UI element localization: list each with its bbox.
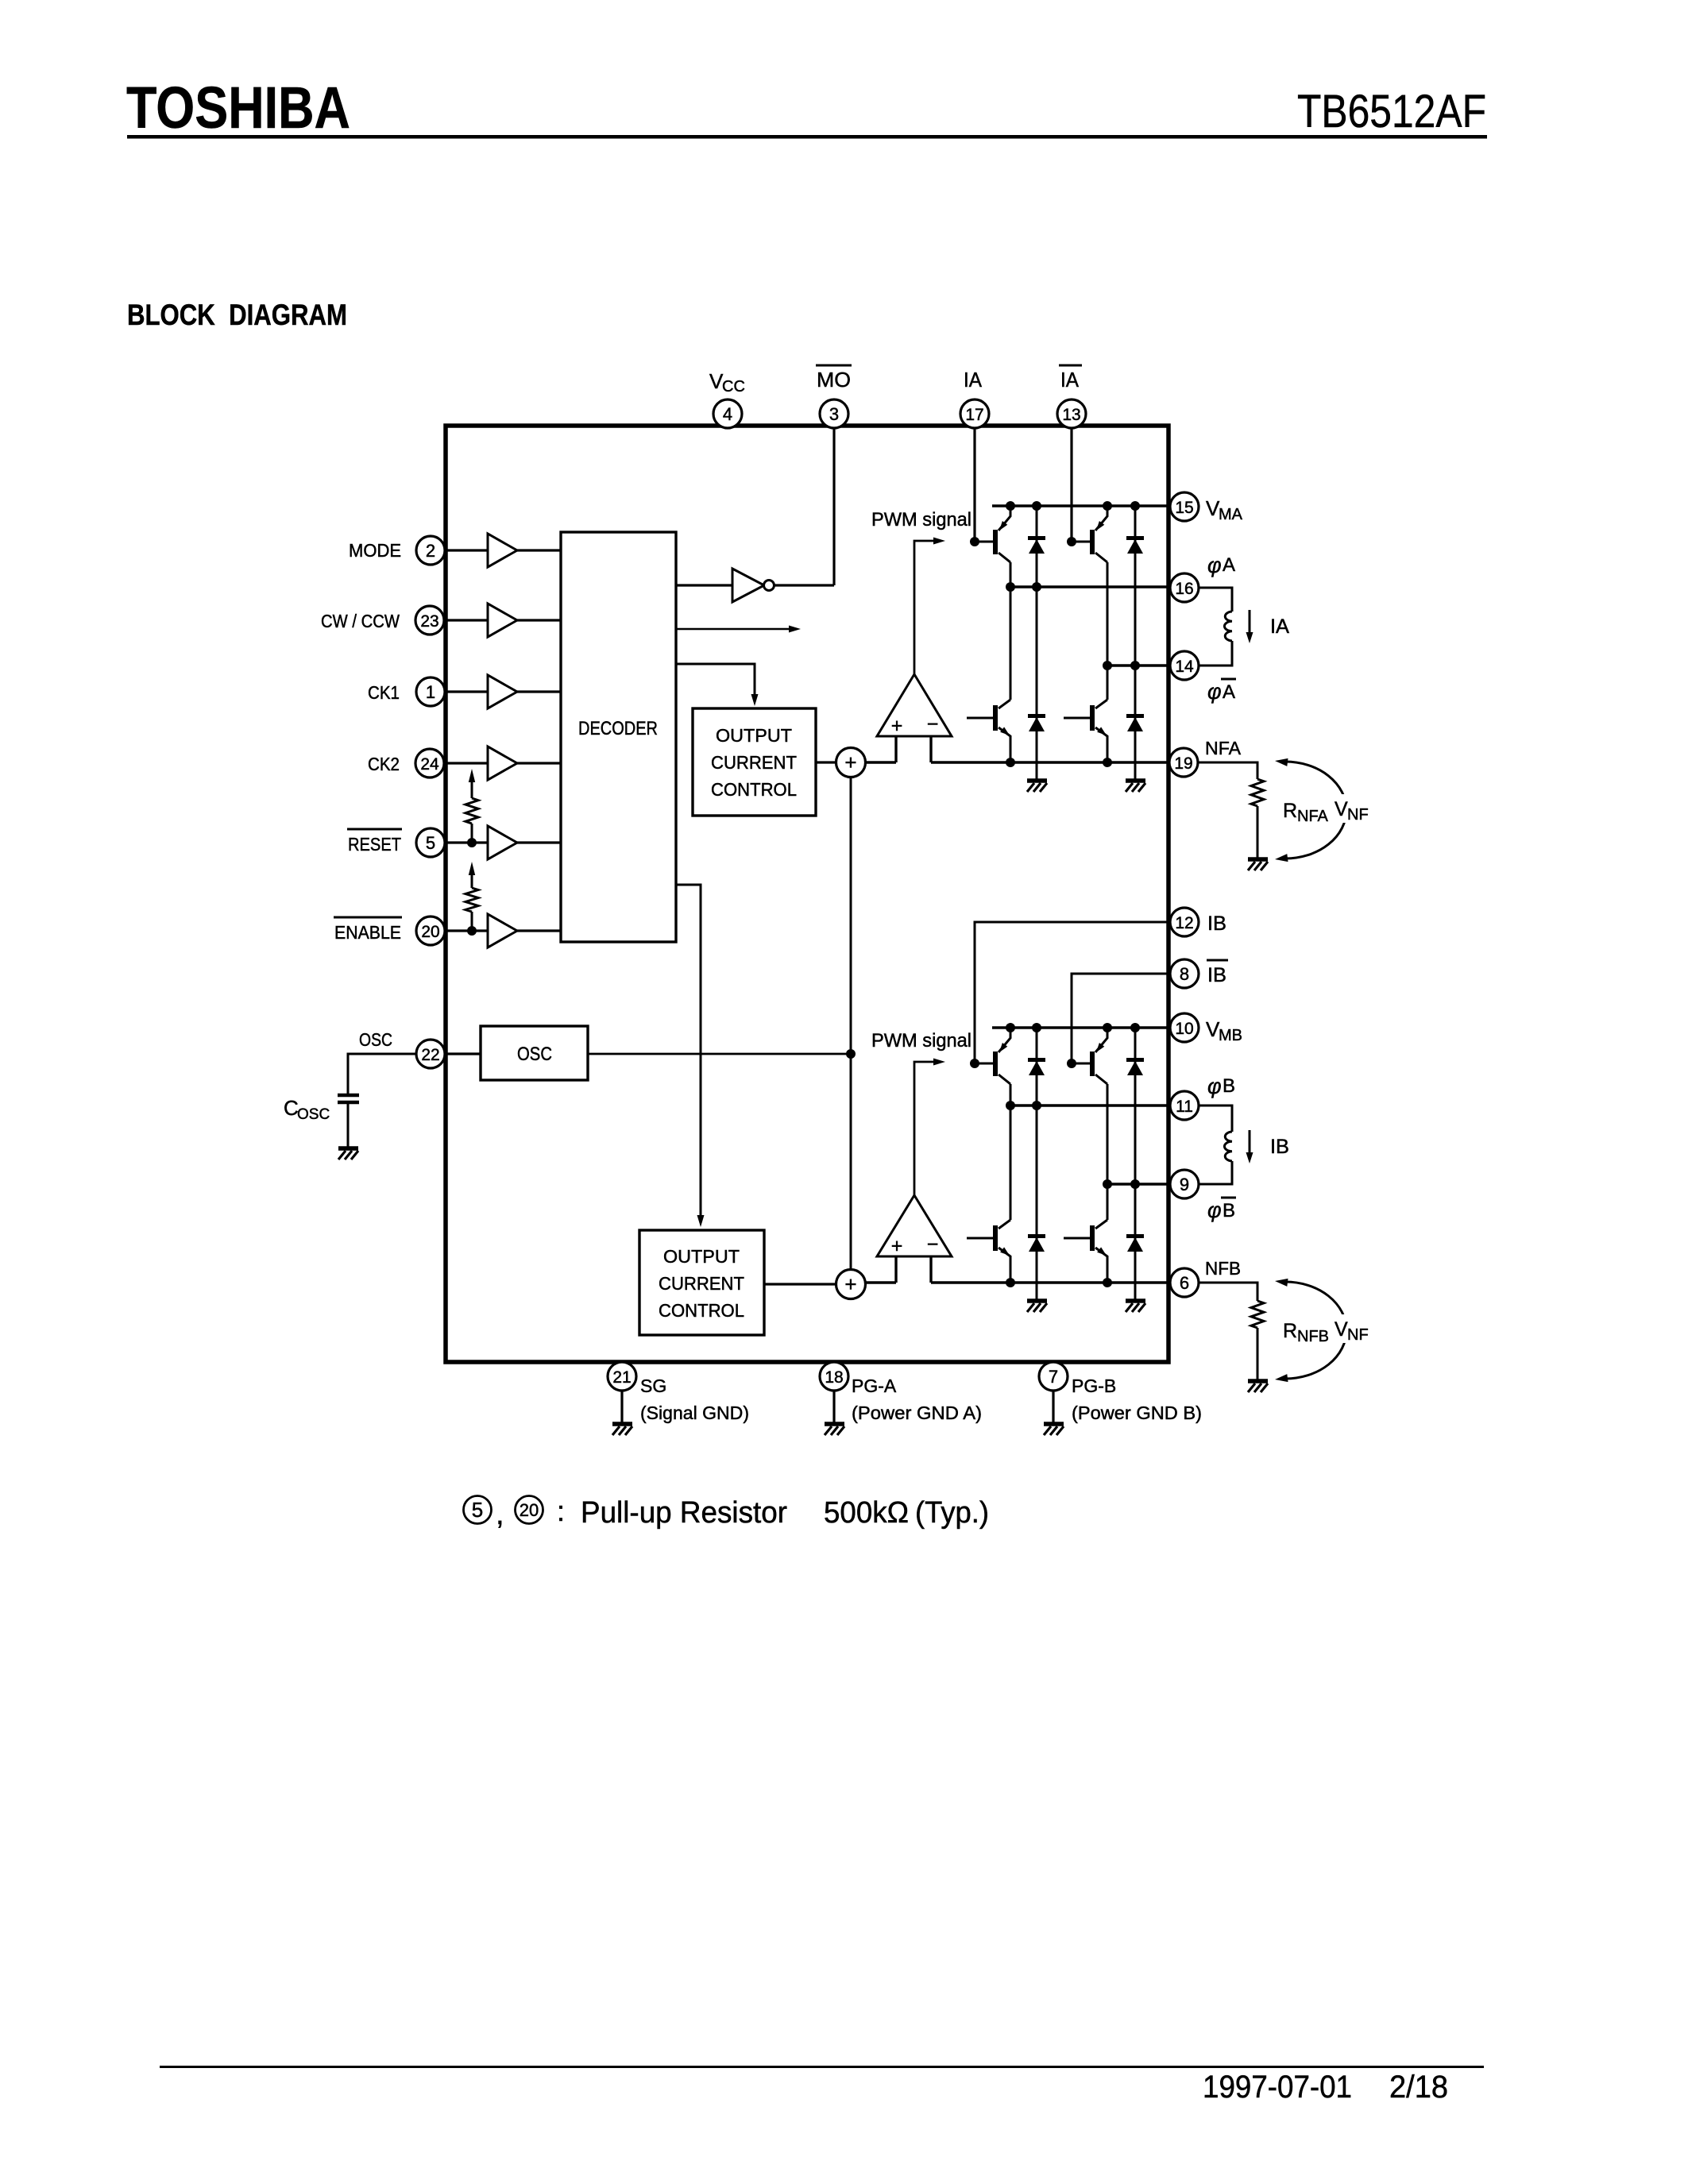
svg-text:OUTPUT: OUTPUT: [716, 725, 792, 746]
junction IB base node: [970, 1059, 979, 1068]
svg-text:Pull-up Resistor: Pull-up Resistor: [581, 1496, 787, 1530]
svg-text:TOSHIBA: TOSHIBA: [126, 75, 350, 141]
svg-text:12: 12: [1175, 914, 1193, 932]
DECODER block: [561, 532, 676, 942]
svg-text:(Power GND B): (Power GND B): [1072, 1403, 1202, 1423]
wire SG pin21 to ground: [620, 1365, 623, 1422]
OUTPUT CURRENT CONTROL block B: [639, 1230, 764, 1335]
label RNFB: [1283, 1320, 1329, 1345]
svg-text:MA: MA: [1219, 506, 1243, 523]
wire summer A to summer B (PWM feedback line): [850, 777, 852, 1269]
svg-text:IB: IB: [1207, 964, 1226, 986]
pin 13 circle (IA-bar): [1057, 399, 1086, 428]
junction VMB rail x=1429: [1130, 1023, 1140, 1032]
svg-text:2/18: 2/18: [1389, 2070, 1448, 2105]
svg-text:DECODER: DECODER: [578, 718, 658, 739]
label IA current: [1270, 615, 1289, 638]
label MO (overlined): [816, 365, 852, 392]
junction phiB-bar rail D6: [1130, 1179, 1140, 1189]
svg-text:20: 20: [520, 1500, 539, 1520]
ground bridge B right diode: [1126, 1301, 1145, 1312]
svg-text:14: 14: [1175, 658, 1194, 676]
diode D7 bridge B lower-left: [1028, 1234, 1045, 1252]
pin 21 circle (SG): [608, 1362, 636, 1391]
label phiA: [1207, 554, 1235, 577]
ground RNFB: [1248, 1381, 1268, 1392]
wire PG-A pin18 to ground: [832, 1365, 835, 1422]
VNF arc A: [1275, 758, 1374, 862]
ground bridge A right diode: [1126, 781, 1145, 792]
junction OSC line: [846, 1049, 856, 1059]
input buffer ENABLE: [488, 914, 517, 947]
wire buffer to decoder y=1172: [517, 929, 561, 932]
diode column upper-left bridge B: [1036, 1028, 1038, 1106]
junction phiB-bar rail Q6 collector: [1103, 1179, 1112, 1189]
diode column lower-left bridge A (to ground): [1036, 587, 1038, 779]
svg-text:−: −: [927, 713, 939, 735]
label NFB: [1205, 1258, 1241, 1279]
wire pin22 to external capacitor: [348, 1054, 416, 1094]
label PWM signal A: [871, 509, 971, 531]
svg-text:R: R: [1283, 1320, 1297, 1342]
ground bridge A left diode: [1027, 781, 1047, 792]
transistor Q6 bridge B upper-right (PNP upper): [1072, 1028, 1107, 1084]
wire summer B to op-amp B plus input: [865, 1281, 896, 1283]
svg-text:TB6512AF: TB6512AF: [1297, 86, 1486, 137]
wire IB-bar pin8 to bridge B base: [1072, 974, 1169, 1063]
svg-text:PWM signal: PWM signal: [871, 509, 971, 531]
label (Power GND B): [1072, 1403, 1202, 1423]
diode D4 bridge A lower-right: [1126, 714, 1144, 731]
svg-text:22: 22: [421, 1046, 439, 1064]
pin 6 circle (NFB): [1170, 1268, 1199, 1297]
svg-text:11: 11: [1176, 1098, 1193, 1116]
label VNF B: [1335, 1318, 1369, 1344]
wire pin to input buffer y=693: [433, 549, 488, 551]
current arrow IB: [1246, 1130, 1253, 1163]
svg-text:CC: CC: [722, 378, 745, 396]
svg-text:9: 9: [1180, 1175, 1189, 1194]
pin 18 circle (PG-A): [820, 1362, 848, 1391]
pin 7 circle (PG-B): [1039, 1362, 1068, 1391]
svg-text:SG: SG: [640, 1376, 666, 1396]
motor coil B circuit: [1199, 1106, 1232, 1184]
pin 11 circle (phiB): [1170, 1091, 1199, 1120]
svg-text:NFB: NFB: [1205, 1258, 1241, 1279]
wire decoder to output current control A: [676, 664, 759, 706]
label IB-bar (pin 8): [1207, 960, 1228, 986]
current arrow IA: [1246, 610, 1253, 643]
svg-text:17: 17: [965, 406, 983, 424]
diode column lower-left bridge B (to ground): [1036, 1106, 1038, 1299]
pin 2 circle (MODE): [416, 536, 445, 565]
svg-text:IA: IA: [964, 368, 983, 392]
label IB (pin 12): [1207, 913, 1226, 935]
pin 14 circle (phiA-bar): [1170, 651, 1199, 680]
OUTPUT CURRENT CONTROL block A: [693, 708, 816, 816]
decoder output arrow (phase outputs): [676, 626, 801, 633]
svg-text:RESET: RESET: [348, 834, 401, 855]
motor coil A circuit: [1199, 588, 1232, 666]
svg-text:8: 8: [1180, 964, 1189, 984]
junction VMA rail x=1394: [1103, 501, 1112, 511]
svg-text:CONTROL: CONTROL: [711, 779, 797, 800]
label (Signal GND): [640, 1403, 749, 1423]
VNF arc B: [1275, 1279, 1374, 1382]
external resistor RNFA: [1199, 762, 1264, 858]
input buffer CW/CCW: [488, 604, 517, 637]
wire PG-B pin7 to ground: [1052, 1365, 1054, 1422]
input buffer RESET: [488, 826, 517, 859]
diode D5 bridge B upper-left: [1028, 1058, 1045, 1075]
svg-text:+: +: [891, 1235, 903, 1257]
svg-text:CURRENT: CURRENT: [659, 1273, 744, 1294]
junction phiB rail Q5 collector: [1006, 1101, 1015, 1110]
svg-text:+: +: [891, 715, 903, 737]
svg-text:B: B: [1223, 1200, 1235, 1221]
svg-text:16: 16: [1175, 580, 1193, 598]
junction VMB rail x=1272: [1006, 1023, 1015, 1032]
summing node A: [836, 748, 866, 778]
phiB-bar rail (pin 9): [1107, 1183, 1169, 1185]
svg-text:5: 5: [472, 1498, 483, 1522]
label RNFA: [1283, 800, 1329, 825]
transistor column left bridge B (Q5 collector / Q7 collector): [1010, 1084, 1012, 1220]
diode column lower-right bridge B (to ground): [1134, 1184, 1137, 1299]
svg-text:(Signal GND): (Signal GND): [640, 1403, 749, 1423]
wire buffer to decoder y=871: [517, 690, 561, 693]
svg-text:,: ,: [496, 1498, 504, 1531]
label VCC: [709, 369, 745, 396]
svg-text:NF: NF: [1347, 806, 1369, 824]
wire inverter to MO pin line: [774, 584, 834, 586]
transistor Q8 bridge B lower-right (NPN lower): [1064, 1220, 1107, 1283]
transistor Q7 bridge B lower-left (NPN lower): [967, 1220, 1010, 1283]
transistor Q3 bridge A lower-left (NPN lower): [967, 700, 1010, 762]
label SG: [640, 1376, 666, 1396]
svg-text:7: 7: [1049, 1367, 1058, 1387]
svg-text:BLOCK DIAGRAM: BLOCK DIAGRAM: [127, 299, 347, 331]
pin 1 circle (CK1): [416, 677, 445, 706]
wire pin to input buffer y=1172: [433, 929, 488, 932]
junction NFB rail Q8 emitter: [1103, 1278, 1112, 1287]
svg-text:1997-07-01: 1997-07-01: [1203, 2070, 1352, 2105]
diode column upper-right bridge A: [1134, 506, 1137, 666]
svg-text:C: C: [284, 1096, 299, 1120]
junction VMB rail x=1305: [1032, 1023, 1041, 1032]
junction NFA rail Q3 emitter: [1006, 758, 1015, 767]
label IA-bar (pin 13): [1059, 365, 1082, 392]
wire OCC-A to summer A: [816, 761, 836, 763]
input buffer MODE: [488, 534, 517, 567]
svg-text:2: 2: [426, 541, 435, 561]
svg-text:V: V: [1335, 798, 1348, 820]
diode D6 bridge B upper-right: [1126, 1058, 1144, 1075]
NFB rail (pin 6): [931, 1281, 1169, 1283]
ground bridge B left diode: [1027, 1301, 1047, 1312]
label MODE: [349, 540, 401, 561]
svg-text:5: 5: [426, 833, 435, 853]
transistor Q5 bridge B upper-left (PNP upper): [975, 1028, 1010, 1084]
svg-text:CONTROL: CONTROL: [659, 1300, 744, 1321]
label (Power GND A): [852, 1403, 982, 1423]
wire IA-bar pin13 to bridge A base: [1070, 428, 1072, 542]
junction phiA-bar rail Q2 collector: [1103, 661, 1112, 670]
svg-text:IB: IB: [1207, 913, 1226, 935]
OSC block: [481, 1026, 588, 1080]
wire IB pin12 to bridge B base: [975, 922, 1169, 1063]
wire pin to input buffer y=961: [433, 762, 488, 764]
svg-text::: :: [557, 1495, 565, 1527]
label IB current: [1270, 1136, 1289, 1158]
label PG-A: [852, 1376, 897, 1396]
svg-text:IA: IA: [1270, 615, 1289, 638]
svg-text:24: 24: [420, 755, 439, 774]
svg-text:(Power GND A): (Power GND A): [852, 1403, 982, 1423]
svg-text:18: 18: [825, 1368, 843, 1387]
svg-text:CURRENT: CURRENT: [711, 752, 797, 773]
transistor column right bridge A (Q2 collector / Q4 collector): [1107, 562, 1109, 700]
note: pins 5, 20 pull-up resistor: [464, 1495, 990, 1531]
junction IA base node: [970, 537, 979, 546]
junction NFB rail Q7 emitter: [1006, 1278, 1015, 1287]
pull-up resistor on ENABLE (pin 20): [465, 862, 478, 931]
pin 3 circle (MO): [820, 399, 848, 428]
junction VMB rail x=1394: [1103, 1023, 1112, 1032]
svg-text:3: 3: [829, 404, 839, 424]
label IA (pin 17): [964, 368, 983, 392]
diode D1 bridge A upper-left: [1028, 536, 1045, 554]
transistor Q2 bridge A upper-right (PNP upper): [1072, 506, 1107, 562]
footer rule: [160, 2066, 1484, 2068]
wire OCC-B to summer B: [764, 1283, 836, 1285]
comparator op-amp A: [877, 674, 952, 762]
label phiB-bar: [1207, 1198, 1236, 1222]
label PWM signal B: [871, 1030, 971, 1051]
inductor LB motor winding B: [1224, 1132, 1232, 1161]
ground PG-A: [825, 1424, 844, 1435]
junction phiB rail D5: [1032, 1101, 1041, 1110]
svg-text:MO: MO: [817, 368, 851, 392]
footer date and page: [1203, 2070, 1448, 2105]
pin 16 circle (phiA): [1170, 573, 1199, 602]
svg-text:PG-B: PG-B: [1072, 1376, 1116, 1396]
label VNF A: [1335, 798, 1369, 824]
transistor column left bridge A (Q1 collector / Q3 collector): [1010, 562, 1012, 700]
wire buffer to decoder y=961: [517, 762, 561, 764]
svg-text:R: R: [1283, 800, 1297, 822]
pin 17 circle (IA): [960, 399, 989, 428]
label RESET (overlined): [347, 829, 402, 855]
label phiA-bar: [1207, 679, 1236, 704]
input buffer CK2: [488, 747, 517, 780]
VMA supply rail (bridge A): [992, 504, 1169, 507]
junction VMA rail x=1305: [1032, 501, 1041, 511]
diode column lower-right bridge A (to ground): [1134, 666, 1137, 779]
label COSC: [284, 1096, 330, 1123]
svg-text:4: 4: [723, 404, 732, 424]
pin 23 circle (CW/CCW): [415, 606, 444, 635]
phiA rail (pin 16): [1010, 585, 1169, 588]
comparator op-amp B: [877, 1195, 952, 1283]
svg-text:OSC: OSC: [517, 1044, 552, 1065]
junction IB-bar base node: [1067, 1059, 1076, 1068]
svg-text:23: 23: [420, 612, 438, 631]
svg-text:φ: φ: [1207, 1075, 1222, 1098]
phiB rail (pin 11): [1010, 1104, 1169, 1106]
pin 15 circle (VMA): [1170, 492, 1199, 521]
svg-text:φ: φ: [1207, 680, 1222, 704]
label OSC (pin 22 net): [359, 1029, 392, 1050]
IC block outline: [446, 426, 1168, 1362]
svg-text:(Typ.): (Typ.): [915, 1496, 989, 1530]
junction RESET pull-up: [467, 838, 477, 847]
svg-text:−: −: [927, 1233, 939, 1256]
svg-text:MB: MB: [1219, 1027, 1242, 1044]
svg-text:PG-A: PG-A: [852, 1376, 897, 1396]
wire MO pin3 to inverter output: [832, 428, 835, 585]
diode D8 bridge B lower-right: [1126, 1234, 1144, 1252]
svg-text:A: A: [1223, 681, 1235, 703]
wire buffer to decoder y=781: [517, 619, 561, 621]
pin 22 circle (OSC): [416, 1040, 445, 1068]
wire summer A to op-amp A plus input: [865, 761, 896, 763]
input buffer CK1: [488, 675, 517, 708]
pin 4 circle (VCC): [713, 399, 742, 428]
wire OSC output to PWM line: [589, 1053, 851, 1055]
pin 19 circle (NFA): [1169, 748, 1198, 777]
pin 12 circle (IB): [1170, 908, 1199, 936]
junction NFA rail Q4 emitter: [1103, 758, 1112, 767]
svg-text:A: A: [1223, 554, 1235, 576]
transistor Q4 bridge A lower-right (NPN lower): [1064, 700, 1107, 762]
diode D3 bridge A lower-left: [1028, 714, 1045, 731]
svg-text:20: 20: [421, 923, 439, 941]
transistor Q1 bridge A upper-left (PNP upper): [975, 506, 1010, 562]
diode column upper-right bridge B: [1134, 1028, 1137, 1184]
pin 8 circle (IB-bar): [1170, 959, 1199, 988]
junction VMA rail x=1272: [1006, 501, 1015, 511]
svg-text:PWM signal: PWM signal: [871, 1030, 971, 1051]
label VMA: [1206, 496, 1243, 523]
diode D2 bridge A upper-right: [1126, 536, 1144, 554]
svg-text:V: V: [1335, 1318, 1348, 1341]
svg-text:CK2: CK2: [368, 754, 400, 774]
external resistor RNFB: [1199, 1283, 1264, 1379]
svg-text:+: +: [844, 751, 856, 774]
svg-text:IB: IB: [1270, 1136, 1289, 1158]
pin 5 circle (RESET): [416, 828, 445, 857]
label PG-B: [1072, 1376, 1116, 1396]
PWM signal arrow A: [914, 538, 945, 675]
ground RNFA: [1248, 859, 1268, 870]
label ENABLE (overlined): [334, 917, 402, 943]
section title BLOCK DIAGRAM: [127, 299, 347, 331]
svg-text:OUTPUT: OUTPUT: [663, 1246, 740, 1267]
ground PG-B: [1044, 1424, 1064, 1435]
transistor column right bridge B (Q6 collector / Q8 collector): [1107, 1084, 1109, 1220]
label CK1: [368, 682, 400, 703]
svg-text:13: 13: [1062, 406, 1080, 424]
junction IA-bar base node: [1067, 537, 1076, 546]
svg-text:B: B: [1223, 1075, 1235, 1097]
svg-text:MODE: MODE: [349, 540, 401, 561]
part number TB6512AF: [1297, 86, 1486, 137]
ground SG: [612, 1424, 632, 1435]
junction phiA rail D1: [1032, 582, 1041, 592]
inverter (MO output): [732, 569, 774, 602]
TOSHIBA logo: [126, 75, 350, 141]
junction phiA-bar rail D2: [1130, 661, 1140, 670]
svg-text:21: 21: [612, 1368, 631, 1387]
svg-text:NFB: NFB: [1297, 1328, 1329, 1345]
wire pin to input buffer y=1061: [433, 841, 488, 843]
junction phiA rail T1 collector: [1006, 582, 1015, 592]
label VMB: [1206, 1017, 1242, 1044]
NFA rail (pin 19): [931, 761, 1169, 763]
pin 24 circle (CK2): [415, 749, 444, 778]
svg-text:6: 6: [1180, 1273, 1189, 1293]
svg-text:15: 15: [1175, 499, 1193, 517]
svg-text:φ: φ: [1207, 1198, 1222, 1222]
svg-text:19: 19: [1174, 754, 1192, 773]
wire buffer to decoder y=1061: [517, 841, 561, 843]
wire IA pin17 to bridge A base: [973, 428, 975, 542]
capacitor COSC: [338, 1095, 359, 1147]
label CK2: [368, 754, 400, 774]
svg-text:NF: NF: [1347, 1326, 1369, 1344]
pin 10 circle (VMB): [1170, 1013, 1199, 1042]
pin 9 circle (phiB-bar): [1170, 1170, 1199, 1198]
junction VMA rail x=1429: [1130, 501, 1140, 511]
svg-text:CK1: CK1: [368, 682, 400, 703]
header rule: [127, 135, 1487, 139]
svg-text:φ: φ: [1207, 554, 1222, 577]
junction ENABLE pull-up: [467, 926, 477, 936]
svg-text:ENABLE: ENABLE: [334, 922, 401, 943]
svg-text:500kΩ: 500kΩ: [824, 1496, 909, 1530]
svg-text:NFA: NFA: [1297, 808, 1329, 825]
label NFA: [1205, 738, 1242, 758]
label CW/CCW: [321, 611, 400, 631]
pin 20 circle (ENABLE): [416, 916, 445, 945]
diode column upper-left bridge A: [1036, 506, 1038, 587]
svg-text:1: 1: [426, 682, 435, 702]
wire buffer to decoder y=693: [517, 549, 561, 551]
wire decoder to output current control B: [676, 885, 705, 1227]
svg-text:OSC: OSC: [359, 1029, 392, 1050]
svg-text:IA: IA: [1060, 368, 1080, 392]
inductor LA motor winding A: [1224, 612, 1232, 641]
svg-text:10: 10: [1175, 1020, 1193, 1038]
summing node B: [836, 1270, 866, 1299]
phiA-bar rail (pin 14): [1107, 664, 1169, 666]
svg-text:+: +: [844, 1272, 856, 1296]
wire decoder to inverter: [676, 584, 732, 586]
wire pin to input buffer y=871: [433, 690, 488, 693]
ground COSC: [338, 1148, 358, 1160]
pull-up resistor on RESET (pin 5): [465, 769, 478, 843]
VMB supply rail (bridge B): [992, 1026, 1169, 1028]
wire pin to input buffer y=781: [433, 619, 488, 621]
svg-text:CW / CCW: CW / CCW: [321, 611, 400, 631]
PWM signal arrow B: [914, 1059, 945, 1196]
svg-text:NFA: NFA: [1205, 738, 1242, 758]
wire pin22 to OSC block: [433, 1052, 481, 1055]
label phiB: [1207, 1075, 1235, 1098]
svg-text:OSC: OSC: [297, 1106, 330, 1123]
